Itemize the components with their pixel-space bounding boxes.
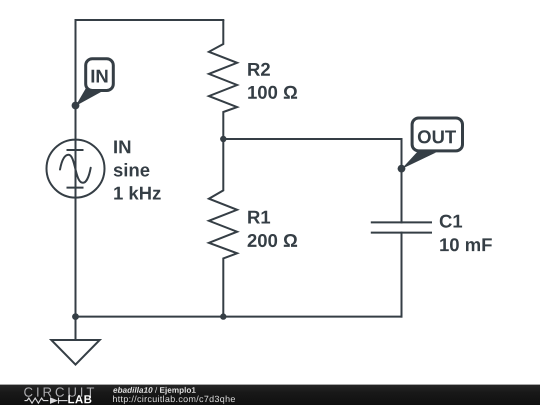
resistor R2 bbox=[209, 20, 237, 139]
wire: left vertical (node IN through source V1 down to ground) bbox=[75, 20, 77, 340]
label: R1 bbox=[248, 211, 270, 224]
label: source type sine bbox=[114, 163, 150, 177]
label: R1 value 200 ohm bbox=[248, 234, 298, 247]
junction dot: bottom R1 node bbox=[220, 313, 226, 319]
node OUT junction dot bbox=[398, 165, 406, 173]
attribution: url bbox=[113, 396, 235, 404]
wire: bottom horizontal (ground node to C1 branch) bbox=[76, 316, 402, 318]
CircuitLab logo: CIRCUIT wordmark bbox=[24, 387, 94, 396]
wire: right vertical lower (C1 bottom plate to bottom wire) bbox=[401, 233, 403, 317]
node IN junction dot bbox=[72, 102, 80, 110]
junction dot: ground node bbox=[72, 313, 79, 320]
voltage source V1 (sine source) bbox=[47, 140, 105, 198]
node IN callout flag bbox=[76, 59, 114, 106]
capacitor C1 plates bbox=[371, 222, 432, 232]
label: R2 value 100 ohm bbox=[248, 86, 297, 99]
label: source frequency 1 kHz bbox=[114, 186, 161, 199]
attribution: author / title bbox=[113, 387, 195, 395]
wire: top horizontal (source top to R2 top) bbox=[76, 19, 224, 21]
junction dot: R2/R1 node bbox=[220, 136, 226, 142]
wire: middle horizontal (R2/R1 junction to OUT branch) bbox=[223, 138, 401, 140]
label: C1 value 10 mF bbox=[440, 238, 492, 251]
CircuitLab logo: LAB wordmark bbox=[68, 395, 91, 403]
label: R2 bbox=[248, 63, 270, 76]
label: source node name IN bbox=[114, 141, 130, 154]
node OUT callout flag bbox=[402, 118, 463, 169]
CircuitLab logo: resistor-diode squiggle bbox=[25, 398, 68, 404]
label: C1 bbox=[440, 215, 462, 228]
wire: right vertical upper (OUT node to C1 top plate) bbox=[401, 139, 403, 222]
resistor R1 bbox=[209, 139, 237, 317]
ground symbol bbox=[51, 317, 99, 365]
footer bar bbox=[0, 385, 540, 405]
